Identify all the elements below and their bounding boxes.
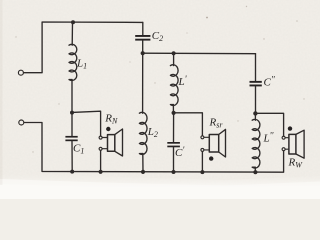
speaker Rsr stubs bbox=[204, 137, 209, 150]
input terminal + (top left) bbox=[18, 70, 23, 75]
speaker RW body bbox=[289, 134, 296, 154]
node E (C''/L''/RW junction) bbox=[253, 111, 257, 115]
speaker RW terminals bbox=[282, 136, 285, 139]
junction dot Rsr/bottom rail bbox=[200, 170, 204, 174]
wire L'' bottom bbox=[254, 167, 256, 172]
wire L1 bottom to C1 bbox=[71, 80, 73, 136]
speaker RW horn bbox=[296, 130, 304, 158]
capacitor C2 top wire bbox=[142, 22, 144, 35]
wire L' top bbox=[173, 53, 175, 65]
wire L1 top bbox=[71, 22, 73, 45]
capacitor C2 bbox=[135, 35, 150, 41]
junction dot C1/bottom rail bbox=[70, 170, 74, 174]
wire C1 to bottom rail bbox=[71, 141, 73, 172]
wire Rsr bottom terminal to rail bbox=[201, 152, 203, 173]
speaker RN terminals bbox=[99, 136, 102, 139]
input terminal - (bottom left) bbox=[19, 120, 24, 125]
wire C'' to node E bbox=[255, 86, 257, 113]
speaker RW stubs bbox=[285, 138, 289, 150]
junction dot L''/bottom rail bbox=[253, 170, 257, 174]
wire C' bottom bbox=[173, 147, 175, 172]
node D (L'/C'/Rsr junction) bbox=[172, 111, 176, 115]
polarity dot RN bbox=[106, 127, 110, 131]
capacitor C1 bbox=[65, 136, 77, 141]
node C (L' top) bbox=[172, 51, 176, 55]
polarity dot Rsr bbox=[209, 156, 213, 160]
wire L' bottom to node D bbox=[172, 105, 174, 113]
capacitor C' bbox=[167, 142, 180, 147]
polarity dot RW bbox=[288, 126, 292, 130]
node A (L1/C1/RN junction) bbox=[70, 111, 74, 115]
wire C' top bbox=[173, 113, 175, 142]
wire L2 top bbox=[142, 53, 144, 113]
junction dot RN/bottom rail bbox=[99, 170, 103, 174]
wire input- down to bottom rail, rail, and up to RW bbox=[24, 123, 284, 173]
wire branch to RN bbox=[72, 111, 101, 136]
junction dot C'/bottom rail bbox=[172, 170, 176, 174]
inductor L1 bbox=[69, 44, 77, 80]
capacitor C'' bbox=[250, 81, 262, 87]
speaker Rsr terminals bbox=[201, 136, 204, 139]
wire C2 to node B bbox=[142, 41, 144, 54]
speaker RN horn bbox=[115, 129, 123, 156]
speaker Rsr horn bbox=[219, 129, 226, 157]
inductor L' bbox=[170, 65, 178, 106]
wire branch to Rsr bbox=[174, 113, 203, 136]
inductor L2 bbox=[139, 112, 147, 154]
wire C'' top bbox=[255, 54, 257, 81]
middle rail bbox=[143, 52, 256, 55]
inductor L'' bbox=[252, 113, 260, 168]
wire branch to RW bbox=[255, 113, 283, 136]
node: L1 top junction bbox=[71, 20, 75, 24]
speaker Rsr body bbox=[209, 135, 218, 153]
speaker RN stubs bbox=[102, 138, 107, 149]
junction dot L2/bottom rail bbox=[141, 170, 145, 174]
speaker RN body bbox=[108, 135, 115, 152]
wire input+ up to top rail bbox=[24, 22, 143, 73]
node B (C2/L2/mid rail) bbox=[141, 51, 145, 55]
wire L2 bottom bbox=[142, 154, 144, 172]
wire RN bottom terminal to rail bbox=[100, 150, 102, 171]
